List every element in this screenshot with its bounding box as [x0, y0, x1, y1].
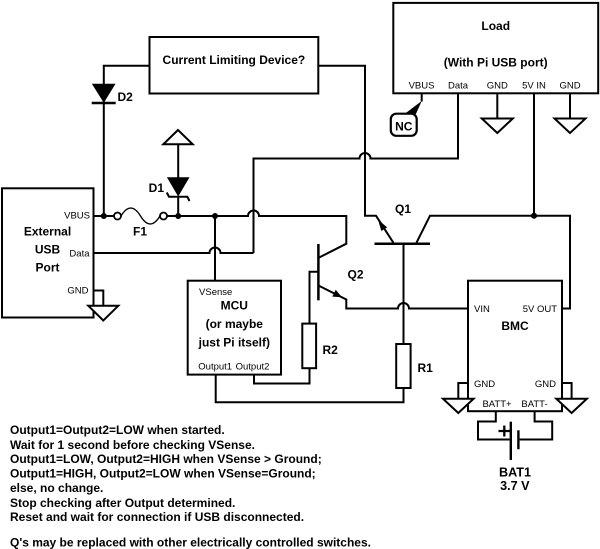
ground symbol below BMC GND left — [443, 399, 474, 413]
wire Load VBUS pin stub — [421, 93, 423, 101]
wire Q1 base down to R1 — [403, 244, 405, 344]
svg-text:D2: D2 — [118, 90, 134, 104]
wire USB VBUS pin to fuse — [94, 215, 115, 217]
svg-text:5V IN: 5V IN — [522, 81, 546, 92]
svg-text:MCU: MCU — [221, 299, 248, 313]
wire Load GND right pin — [569, 93, 571, 118]
wire CLD right pin to Q1 emitter — [318, 66, 394, 244]
wire USB Data pin to Data riser (hop over VSense wire) — [94, 248, 254, 254]
wire Load GND left pin — [496, 93, 498, 118]
transistor Q1 — [375, 202, 431, 244]
svg-text:Q1: Q1 — [395, 202, 411, 216]
svg-text:USB: USB — [35, 243, 61, 257]
svg-text:F1: F1 — [133, 225, 147, 239]
svg-text:BATT-: BATT- — [521, 399, 547, 410]
wire R1 bottom to Output1 — [216, 375, 404, 403]
BMC box — [468, 281, 562, 412]
svg-text:Data: Data — [448, 81, 469, 92]
wire Q1 collector to 5V node and BMC 5V OUT — [416, 216, 570, 309]
ground symbol below Load GND right — [555, 119, 586, 134]
svg-text:BMC: BMC — [501, 319, 529, 333]
svg-text:5V OUT: 5V OUT — [523, 304, 558, 315]
svg-text:D1: D1 — [149, 181, 165, 195]
zener diode D1 — [149, 178, 190, 201]
svg-text:NC: NC — [395, 120, 413, 134]
NC flag pointer — [404, 101, 422, 114]
wire Load Data pin down, left (hop over CLD wire), down to USB Data net — [254, 93, 459, 253]
wire BMC BATT- pin to battery negative plate — [520, 411, 553, 439]
svg-text:R2: R2 — [323, 343, 339, 357]
wire USB GND pin — [94, 291, 104, 306]
svg-text:VBUS: VBUS — [409, 81, 435, 92]
svg-text:GND: GND — [535, 379, 556, 390]
svg-text:BATT+: BATT+ — [482, 399, 512, 410]
wire Q2 base to R2 — [310, 272, 319, 324]
ground symbol below Load GND left — [482, 119, 513, 134]
svg-text:VBUS: VBUS — [64, 211, 90, 222]
MCU box — [188, 281, 281, 375]
svg-text:External: External — [24, 225, 71, 239]
Current Limiting Device box — [150, 37, 319, 94]
ground symbol below BMC GND right — [556, 399, 587, 413]
svg-text:GND: GND — [559, 81, 580, 92]
svg-text:Stop checking after Output det: Stop checking after Output determined. — [10, 496, 235, 510]
svg-text:Wait for 1 second before check: Wait for 1 second before checking VSense… — [10, 438, 255, 452]
fuse F1 — [114, 208, 167, 239]
wire D1 anode down to VBUS net — [177, 197, 179, 216]
up arrow symbol above D1 — [163, 130, 192, 144]
wire BMC BATT+ pin to battery positive plate — [478, 411, 510, 439]
transistor Q2 — [318, 244, 363, 300]
svg-text:Data: Data — [69, 249, 90, 260]
svg-text:GND: GND — [487, 81, 508, 92]
wire R2 bottom to Output2 — [254, 368, 310, 383]
svg-text:just Pi itself): just Pi itself) — [198, 336, 270, 350]
svg-text:GND: GND — [474, 379, 495, 390]
svg-text:Load: Load — [481, 19, 510, 33]
wire VSense riser — [214, 216, 216, 281]
wire CLD left pin to D2 anode — [104, 66, 150, 216]
wire BMC GND right pin — [562, 383, 572, 399]
battery BAT1 — [499, 422, 531, 493]
Load box U-Load — [393, 3, 598, 93]
svg-text:VIN: VIN — [474, 304, 490, 315]
svg-text:Output1=Output2=LOW when start: Output1=Output2=LOW when started. — [10, 423, 225, 437]
wire Load 5V IN pin down to Q1 collector node — [533, 93, 535, 215]
wire VBUS net to Q2 collector (hop over Data riser) — [167, 211, 346, 258]
svg-text:(With Pi USB port): (With Pi USB port) — [444, 56, 548, 70]
svg-text:Reset and wait for connection: Reset and wait for connection if USB dis… — [10, 510, 304, 524]
svg-text:Q's may be replaced with other: Q's may be replaced with other electrica… — [10, 535, 371, 549]
svg-text:Current Limiting Device?: Current Limiting Device? — [163, 53, 306, 67]
node Q1 collector / 5V IN junction — [531, 213, 537, 219]
svg-text:VSense: VSense — [199, 287, 232, 298]
svg-text:else, no change.: else, no change. — [10, 481, 103, 495]
External USB Port box — [2, 188, 94, 317]
svg-text:Output1=LOW, Output2=HIGH when: Output1=LOW, Output2=HIGH when VSense > … — [10, 452, 322, 466]
svg-text:3.7 V: 3.7 V — [500, 479, 530, 493]
NC label box — [391, 114, 417, 136]
ground symbol below USB port — [88, 306, 118, 321]
resistor R2 — [302, 324, 338, 369]
wire Q2 emitter to BMC VIN (hop over R1 riser) — [318, 286, 468, 309]
svg-text:GND: GND — [67, 286, 88, 297]
svg-text:Output2: Output2 — [236, 362, 270, 373]
wire D1 cathode up to arrow — [177, 144, 179, 178]
node VBUS junction at D1 — [175, 213, 181, 219]
svg-text:R1: R1 — [418, 361, 434, 375]
diode D2 — [92, 85, 133, 105]
svg-text:Port: Port — [36, 261, 60, 275]
wire BMC GND left pin — [458, 383, 468, 399]
node VBUS junction at D2 — [101, 213, 107, 219]
svg-text:(or maybe: (or maybe — [206, 317, 264, 331]
svg-text:Q2: Q2 — [348, 268, 364, 282]
note text block — [10, 423, 371, 549]
svg-text:Output1: Output1 — [198, 362, 232, 373]
node VBUS junction at VSense — [212, 213, 218, 219]
svg-text:BAT1: BAT1 — [499, 466, 531, 480]
resistor R1 — [396, 344, 433, 388]
svg-text:Output1=HIGH, Output2=LOW when: Output1=HIGH, Output2=LOW when VSense=Gr… — [10, 467, 316, 481]
